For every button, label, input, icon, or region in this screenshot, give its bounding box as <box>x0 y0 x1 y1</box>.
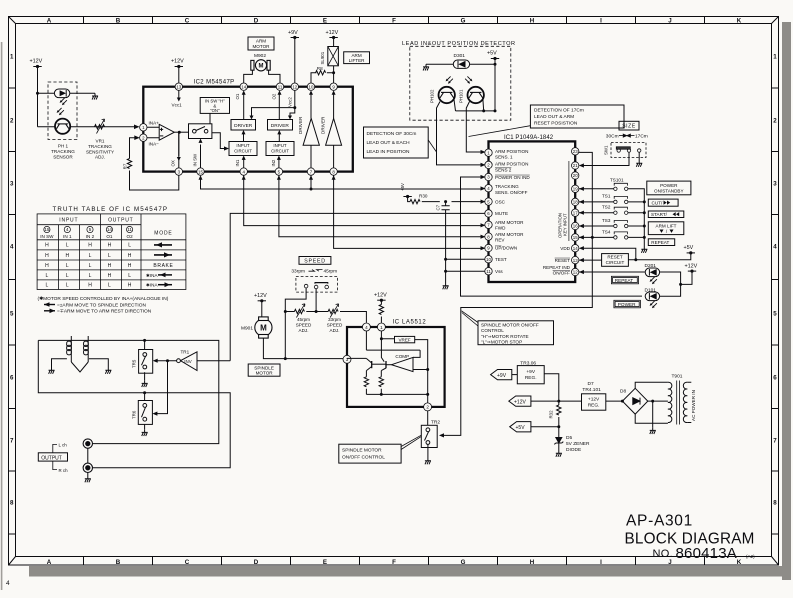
svg-text:SPINDLE MOTOR: SPINDLE MOTOR <box>342 448 382 454</box>
ARM LIFT box <box>648 222 684 235</box>
svg-text:6: 6 <box>773 375 777 382</box>
bridge right to center tap + ground <box>648 401 668 428</box>
svg-text:SPEED: SPEED <box>304 259 326 265</box>
SW1 middle contact to pin21 <box>581 152 630 165</box>
svg-text:IC2 M54547P: IC2 M54547P <box>194 80 235 86</box>
svg-text:ARM LIFT: ARM LIFT <box>656 223 677 228</box>
svg-text:3: 3 <box>10 181 14 188</box>
svg-text:45rpm: 45rpm <box>324 268 338 274</box>
svg-text:D8: D8 <box>620 389 626 395</box>
svg-text:+9V: +9V <box>497 373 507 379</box>
svg-text:ARM POSITION: ARM POSITION <box>495 149 528 154</box>
svg-text:TRACKING: TRACKING <box>495 184 519 189</box>
driver triangle 1 <box>303 118 319 145</box>
svg-text:CIRCUIT: CIRCUIT <box>234 149 252 154</box>
transistor Q2 <box>381 361 391 371</box>
svg-text:ADJ.: ADJ. <box>299 328 309 333</box>
op-amp <box>147 124 189 140</box>
svg-text:33rpm: 33rpm <box>291 268 305 274</box>
svg-text:IN SW: IN SW <box>193 153 198 167</box>
svg-text:TRUTH TABLE OF IC M54547P: TRUTH TABLE OF IC M54547P <box>53 206 169 213</box>
svg-text:F: F <box>392 18 396 25</box>
svg-text:K: K <box>737 18 742 25</box>
solenoid SL901 <box>328 47 339 66</box>
svg-text:START/: START/ <box>651 212 668 217</box>
svg-text:TS2: TS2 <box>602 205 611 210</box>
svg-text:12: 12 <box>292 84 297 89</box>
header pin circles <box>40 226 133 239</box>
svg-text:+12V: +12V <box>254 293 267 299</box>
svg-text:ON/OFF CONTROL: ON/OFF CONTROL <box>342 455 385 461</box>
svg-text:L: L <box>128 273 131 279</box>
wires from speed switch <box>285 288 316 359</box>
svg-text:+12V: +12V <box>171 59 184 65</box>
svg-text:G: G <box>461 559 466 566</box>
svg-text:INV: INV <box>184 359 191 364</box>
IC2 bottom pins <box>175 168 337 175</box>
svg-text:H: H <box>108 263 112 269</box>
svg-text:SPEED: SPEED <box>327 323 343 328</box>
pin6 MUTE wire to INV (long) <box>230 213 485 360</box>
svg-text:FWD: FWD <box>495 226 506 231</box>
svg-text:REPEAT: REPEAT <box>615 278 634 283</box>
INV input from MUTE line <box>197 360 230 362</box>
POWER indicator box (double border) <box>614 300 641 308</box>
svg-text:L: L <box>89 273 92 279</box>
pin3 wire: POWER ON IND to D101 <box>461 177 643 296</box>
svg-text:"L"⇒MOTOR STOP: "L"⇒MOTOR STOP <box>481 339 522 344</box>
svg-text:G: G <box>461 18 466 25</box>
svg-text:17Cm: 17Cm <box>635 133 648 139</box>
svg-text:LEAD IN POSITION: LEAD IN POSITION <box>367 149 410 155</box>
svg-text:DIODE: DIODE <box>566 447 581 453</box>
svg-text:O2: O2 <box>272 93 277 99</box>
OUTPUT box + channel labels <box>38 453 67 461</box>
CUT box <box>648 199 678 206</box>
svg-text:"ON": "ON" <box>210 108 220 113</box>
svg-text:H: H <box>45 243 49 249</box>
svg-text:860413A: 860413A <box>676 545 737 562</box>
svg-text:TS4: TS4 <box>602 229 611 234</box>
svg-text:MUTE: MUTE <box>495 211 508 216</box>
svg-text:✱INA: ✱INA <box>146 283 158 288</box>
svg-text:33rpm: 33rpm <box>328 317 341 322</box>
grid ticks left <box>9 88 16 534</box>
svg-text:SPINDLE: SPINDLE <box>254 365 274 370</box>
START box <box>648 211 684 218</box>
svg-text:TR4.101: TR4.101 <box>582 387 601 393</box>
svg-text:IN 1: IN 1 <box>63 234 72 239</box>
svg-text:4: 4 <box>773 244 777 251</box>
svg-text:H: H <box>45 253 49 259</box>
svg-text:OUTPUT: OUTPUT <box>108 218 133 224</box>
operation key input bracket <box>568 161 570 241</box>
motor to LA5512 pin3 <box>263 338 344 359</box>
wires D301 <box>426 63 495 65</box>
TR6 mute switch <box>144 393 146 401</box>
DRIVER 2 <box>268 120 293 131</box>
SPINDLE MOTOR ON/OFF CONTROL callout (lower) <box>339 444 401 463</box>
svg-text:SPINDLE MOTOR ON/OFF: SPINDLE MOTOR ON/OFF <box>481 323 539 328</box>
SW1 right contact to ground <box>638 152 640 160</box>
svg-text:2: 2 <box>10 118 14 125</box>
svg-text:INA+: INA+ <box>149 120 160 125</box>
svg-text:UP/DOWN: UP/DOWN <box>495 246 517 251</box>
svg-text:TRACKING: TRACKING <box>51 149 75 154</box>
svg-text:L: L <box>46 273 49 279</box>
svg-text:POWER: POWER <box>618 302 636 307</box>
svg-text:REPEAT: REPEAT <box>651 240 669 245</box>
DETECTION 17cm callout box <box>530 105 624 128</box>
D301 LED <box>453 60 469 68</box>
PH102 phototransistor <box>439 87 455 103</box>
svg-text:SW1: SW1 <box>604 145 609 155</box>
svg-text:+12V: +12V <box>588 396 600 402</box>
grid letters bottom <box>47 559 742 566</box>
svg-text:CONTROL: CONTROL <box>481 328 504 333</box>
PH101 emitter down to IC1 pin1 <box>466 102 482 153</box>
+9V reg out to rail <box>544 374 559 405</box>
svg-text:/: / <box>666 229 668 234</box>
svg-text:REV: REV <box>495 238 505 243</box>
DRIVER 1 <box>231 120 256 131</box>
wire to LED <box>38 92 55 94</box>
svg-text:MOTOR: MOTOR <box>252 44 270 49</box>
svg-text:TR1: TR1 <box>181 350 190 355</box>
right pin labels <box>543 246 571 275</box>
switch box inside IC2 <box>189 124 212 139</box>
TR5 mute switch <box>144 340 146 349</box>
scan edge left line <box>1 42 3 590</box>
svg-text:16: 16 <box>573 224 578 229</box>
33rpm pot <box>328 309 338 313</box>
svg-text:H: H <box>128 283 132 289</box>
D201 to +12V rail <box>660 271 692 296</box>
svg-text:L: L <box>108 283 111 289</box>
svg-text:8: 8 <box>773 500 777 507</box>
svg-text:O1: O1 <box>106 234 113 239</box>
spindle motor M901 <box>255 317 272 338</box>
svg-text:+12V: +12V <box>326 30 339 36</box>
svg-text:B: B <box>116 559 121 566</box>
svg-text:PH102: PH102 <box>430 89 435 103</box>
node: LED branch <box>36 92 39 95</box>
svg-text:BRAKE: BRAKE <box>153 263 173 269</box>
VREF box <box>395 336 415 342</box>
svg-text:SIZE: SIZE <box>622 124 636 130</box>
grid letters top <box>47 18 742 25</box>
svg-text:R7: R7 <box>123 163 128 169</box>
L-ch line <box>38 340 230 467</box>
svg-text:H: H <box>128 263 132 269</box>
driver triangle 2 <box>326 118 342 145</box>
DETECTION 30cm callout box <box>364 127 429 158</box>
bottom rail <box>366 393 427 395</box>
REPEAT indicator box (double border) <box>611 276 638 284</box>
svg-text:H: H <box>45 263 49 269</box>
svg-text:TEST: TEST <box>495 257 507 262</box>
pot labels <box>296 317 343 333</box>
dashed sensor box <box>48 82 77 140</box>
grid numbers right <box>773 54 777 507</box>
svg-text:1: 1 <box>10 54 14 61</box>
wire sensor to VR1 to pin1 <box>38 126 136 128</box>
svg-text:6: 6 <box>10 375 14 382</box>
svg-text:13: 13 <box>176 84 181 89</box>
svg-text:SPEED: SPEED <box>296 323 312 328</box>
svg-text:TRACKING: TRACKING <box>88 144 112 149</box>
svg-text:12: 12 <box>573 270 578 275</box>
scan shadow right band <box>782 22 791 580</box>
wire pin8 -> IC1 pin9 <box>334 175 482 248</box>
pin10 TEST and pin11 Vss to rail <box>446 259 485 271</box>
SL901 to node, R8, pin10, pin9 <box>311 66 334 83</box>
svg-text:L: L <box>89 263 92 269</box>
SPINDLE MOTOR box <box>248 364 280 376</box>
pin12 wire to D201 <box>579 271 645 273</box>
svg-text:C: C <box>185 559 190 566</box>
svg-text:+5V: +5V <box>684 245 694 251</box>
RESET CIRCUIT box <box>602 254 629 267</box>
svg-text:INPUT: INPUT <box>59 218 78 224</box>
reset out to +5V and pin14 <box>581 248 691 260</box>
svg-text:+12V: +12V <box>685 263 698 269</box>
svg-text:ARM POSITION: ARM POSITION <box>495 161 528 166</box>
svg-text:INA−: INA− <box>149 142 160 147</box>
svg-text:19: 19 <box>573 187 578 192</box>
detector dashed box <box>410 46 511 120</box>
wire LED to ground <box>70 92 95 94</box>
pin13 Vcc1 arrow <box>178 90 180 99</box>
svg-text:H: H <box>530 559 535 566</box>
svg-text:ARM MOTOR: ARM MOTOR <box>495 232 524 237</box>
svg-text:ARM MOTOR: ARM MOTOR <box>495 220 524 225</box>
pin13 to reset circuit <box>579 259 602 261</box>
core verticals <box>71 336 88 362</box>
light arrows <box>60 98 67 105</box>
LA5512 internals <box>381 331 394 362</box>
svg-text:15: 15 <box>573 235 578 240</box>
+9V tag <box>491 370 512 380</box>
pin23 wire to spindle control (long route to TR2) <box>442 152 592 435</box>
POWER ON/STANDBY box <box>647 181 691 195</box>
svg-text:REPEAT IND: REPEAT IND <box>543 265 571 270</box>
svg-text:D: D <box>254 18 259 25</box>
svg-text:H: H <box>88 283 92 289</box>
svg-text:Vcc1: Vcc1 <box>172 103 183 108</box>
svg-text:INPUT: INPUT <box>273 143 286 148</box>
svg-text:3: 3 <box>773 181 777 188</box>
svg-text:H: H <box>530 18 535 25</box>
speed switch dashed box <box>296 276 338 292</box>
svg-text:H: H <box>128 253 132 259</box>
light arrows to transistors <box>446 76 453 83</box>
svg-text:LEAD OUT & ARM: LEAD OUT & ARM <box>534 114 574 120</box>
LA5512 pins <box>343 323 432 411</box>
svg-text:SENS 2: SENS 2 <box>495 168 512 173</box>
svg-text:CUT/: CUT/ <box>652 201 663 206</box>
svg-text:CIRCUIT: CIRCUIT <box>606 260 625 265</box>
wire +12V down to sensor <box>37 67 39 127</box>
svg-text:KEY INPUT: KEY INPUT <box>562 213 567 236</box>
svg-text:DETECTION OF 17Cm: DETECTION OF 17Cm <box>534 108 584 114</box>
svg-text:4: 4 <box>6 580 10 587</box>
svg-text:OX: OX <box>171 160 176 166</box>
IC LA5512 box <box>347 327 445 407</box>
svg-text:F: F <box>392 559 396 566</box>
input1 -> driver1 arrow <box>243 134 245 142</box>
svg-text:+12V: +12V <box>30 59 43 65</box>
PH102 emitter down to IC1 pin2 <box>437 102 483 165</box>
svg-text:A: A <box>47 559 52 566</box>
bridge top/bottom to transformer <box>635 382 668 423</box>
REPEAT key box <box>648 239 674 246</box>
svg-text:L: L <box>66 243 69 249</box>
svg-text:SENS. 1: SENS. 1 <box>495 155 513 160</box>
svg-text:IN1: IN1 <box>235 159 240 166</box>
cartridge head coils <box>52 336 109 372</box>
svg-text:D: D <box>254 559 259 566</box>
svg-text:IN SW: IN SW <box>40 234 54 239</box>
svg-text:I: I <box>600 18 602 25</box>
svg-text:13: 13 <box>573 258 578 263</box>
driver1 -> pin14 arrow <box>243 94 245 120</box>
svg-text:15: 15 <box>44 227 50 232</box>
svg-text:5: 5 <box>10 311 14 318</box>
svg-text:R ch: R ch <box>59 468 69 473</box>
svg-text:TS101: TS101 <box>610 177 624 182</box>
phototransistor PH1 <box>55 119 70 134</box>
svg-text:K: K <box>737 559 742 566</box>
svg-text:IN2: IN2 <box>271 159 276 166</box>
SIZE box <box>619 121 639 130</box>
ARM LIFTER box <box>344 52 370 64</box>
svg-text:NO.: NO. <box>653 548 673 560</box>
45rpm pot <box>294 309 304 313</box>
svg-text:DRIVER: DRIVER <box>320 116 325 134</box>
svg-text:+12V: +12V <box>374 292 387 298</box>
svg-text:10: 10 <box>309 84 314 89</box>
+5V tag <box>510 422 531 432</box>
switch out to input circuit 1 <box>212 133 227 149</box>
svg-text:18: 18 <box>573 200 578 205</box>
svg-text:✱INA: ✱INA <box>146 273 158 278</box>
svg-text:B: B <box>116 18 121 25</box>
grid ticks top <box>84 17 705 24</box>
svg-text:J: J <box>668 559 672 566</box>
INV output to TR5 and TR6 <box>156 361 177 414</box>
svg-text:ON/STANDBY: ON/STANDBY <box>654 189 684 194</box>
svg-text:IC LA5512: IC LA5512 <box>393 320 427 326</box>
wire pin5 -> IC1 pin8 <box>279 175 482 236</box>
svg-text:TR6: TR6 <box>132 410 137 419</box>
svg-text:DRIVER: DRIVER <box>271 123 290 129</box>
svg-text:4: 4 <box>66 227 69 232</box>
svg-text:11: 11 <box>486 269 491 274</box>
svg-text:L: L <box>66 283 69 289</box>
svg-text:REG.: REG. <box>588 403 600 409</box>
svg-text:"H"⇒MOTOR ROTATE: "H"⇒MOTOR ROTATE <box>481 334 529 339</box>
+12V tag <box>509 396 531 406</box>
svg-text:VDD: VDD <box>560 246 570 251</box>
svg-text:DRIVER: DRIVER <box>298 116 303 134</box>
svg-text:REG.: REG. <box>525 375 537 381</box>
svg-text:ARM: ARM <box>256 39 266 44</box>
svg-text:L: L <box>66 273 69 279</box>
ground <box>92 93 98 99</box>
svg-text:E: E <box>323 18 327 25</box>
motor wires to pins 14, 11 <box>244 70 280 83</box>
mode arrows <box>146 242 172 287</box>
svg-text:7: 7 <box>10 438 14 445</box>
svg-text:Vcc2: Vcc2 <box>287 97 292 107</box>
svg-text:23: 23 <box>573 149 578 154</box>
SPINDLE MOTOR ON/OFF CONTROL callout (upper, with H/L) <box>478 321 554 345</box>
svg-text:RESET POSISTION: RESET POSISTION <box>534 121 578 127</box>
svg-text:TS1: TS1 <box>602 194 611 199</box>
input2 -> driver2 arrow <box>278 134 280 142</box>
svg-text:15: 15 <box>198 169 203 174</box>
svg-text:MODE: MODE <box>154 231 172 237</box>
svg-text:1: 1 <box>380 325 383 330</box>
pin5 -> input2 arrow <box>278 158 280 168</box>
svg-text:14: 14 <box>573 246 578 251</box>
wire pin7 down to node <box>310 175 312 189</box>
arm motor M902 <box>251 60 270 71</box>
svg-text:M: M <box>259 64 264 70</box>
INPUT CIRCUIT 1 <box>229 142 257 156</box>
footnotes <box>38 296 169 315</box>
svg-text:5: 5 <box>89 227 92 232</box>
svg-text:H: H <box>108 273 112 279</box>
svg-text:+5V: +5V <box>400 183 405 191</box>
svg-text:8: 8 <box>10 500 14 507</box>
svg-text:M901: M901 <box>241 326 253 332</box>
svg-text:5V ZENER: 5V ZENER <box>566 441 590 447</box>
svg-text:L: L <box>128 243 131 249</box>
svg-text:COMP: COMP <box>395 354 409 359</box>
svg-text:VREF: VREF <box>398 337 410 342</box>
PH1 label <box>51 144 75 160</box>
VR1 label <box>86 139 114 160</box>
grid ticks right <box>772 88 779 534</box>
emitter resistors <box>364 377 368 387</box>
svg-text:=±ARM MOVE TO SPINDLE DIRECTIO: =±ARM MOVE TO SPINDLE DIRECTION <box>57 302 146 308</box>
svg-text:M: M <box>260 324 267 333</box>
IC1 P1049A-1842 box <box>489 141 576 282</box>
IC2 left pins 1,2 <box>140 124 147 142</box>
svg-text:SENSITIVITY: SENSITIVITY <box>86 149 114 154</box>
svg-text:+5V: +5V <box>487 51 497 57</box>
svg-text:45rpm: 45rpm <box>297 317 310 322</box>
svg-text:RESET: RESET <box>555 258 571 263</box>
svg-text:14: 14 <box>241 84 246 89</box>
C7 + ground rail <box>444 200 447 203</box>
Vcc2 from pin12 <box>252 90 295 117</box>
svg-text:+5V: +5V <box>516 425 526 431</box>
svg-text:LEAD OUT & EACH: LEAD OUT & EACH <box>367 140 411 146</box>
svg-text:TS3: TS3 <box>602 218 611 223</box>
svg-text:Vss: Vss <box>495 269 503 274</box>
svg-text:AP-A301: AP-A301 <box>626 513 693 530</box>
svg-text:R8: R8 <box>317 66 323 71</box>
svg-text:L: L <box>89 253 92 259</box>
svg-text:17: 17 <box>573 210 578 215</box>
svg-text:POWER: POWER <box>660 183 678 188</box>
svg-text:R32: R32 <box>549 410 554 419</box>
svg-text:2: 2 <box>426 405 429 410</box>
svg-text:+9V: +9V <box>288 30 298 36</box>
